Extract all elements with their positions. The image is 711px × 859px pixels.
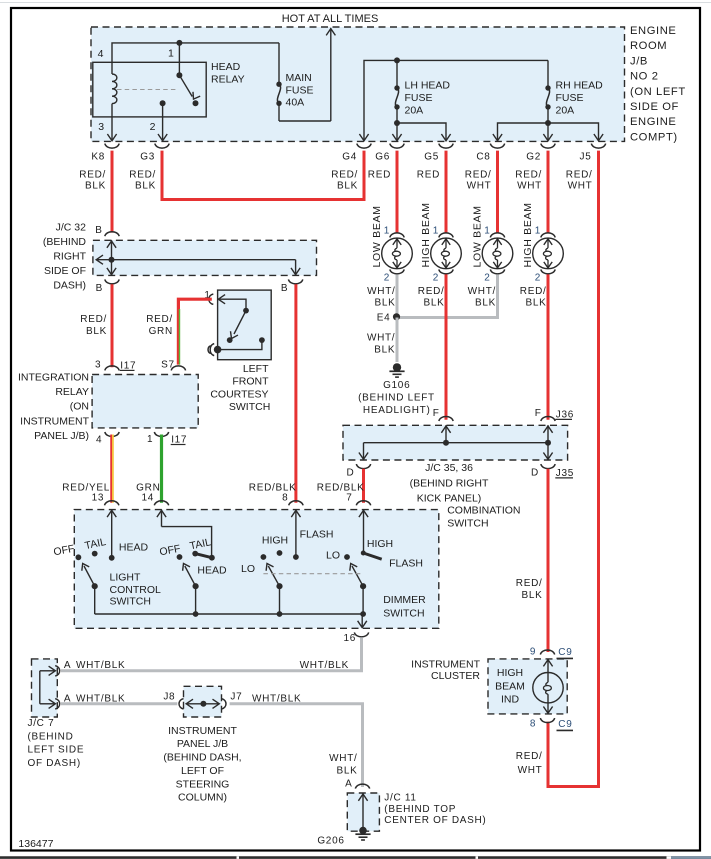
relay pin number labels: [98, 48, 174, 134]
label LH HEAD FUSE 20A: [405, 80, 451, 117]
svg-text:SWITCH: SWITCH: [110, 596, 151, 608]
J/C 32 internal bus: [96, 240, 300, 275]
label J/C 7 BEHIND LEFT SIDE OF DASH: [28, 718, 85, 769]
svg-text:SWITCH: SWITCH: [383, 607, 424, 619]
label K8 and wire color: [79, 152, 106, 192]
wire D RED/BLK down to combination switch pin 7: [362, 469, 365, 503]
svg-text:COLUMN): COLUMN): [178, 792, 227, 804]
svg-text:RED/: RED/: [80, 314, 107, 325]
connector A top of J/C 11: [355, 784, 369, 789]
svg-text:DASH): DASH): [53, 280, 86, 292]
combination switch pin 7 connector: [346, 493, 370, 506]
svg-text:WHT: WHT: [517, 180, 542, 191]
svg-text:HOT AT ALL TIMES: HOT AT ALL TIMES: [282, 13, 379, 25]
svg-text:E4: E4: [377, 313, 391, 324]
svg-text:RED/: RED/: [516, 751, 543, 762]
svg-text:RELAY: RELAY: [211, 73, 245, 85]
svg-text:SWITCH: SWITCH: [447, 518, 488, 530]
svg-text:1: 1: [384, 225, 390, 236]
svg-text:J5: J5: [580, 152, 592, 163]
svg-text:BLK: BLK: [423, 298, 444, 309]
svg-text:G2: G2: [526, 152, 541, 163]
labels LO HIGH FLASH dimmer pole 1: [241, 529, 333, 575]
high beam headlamp bulb at x=446: [431, 233, 462, 274]
wire high beam RH pin2 RED/BLK to J/C 35-36 J36: [547, 274, 550, 419]
svg-text:1: 1: [484, 225, 490, 236]
wire G5 RED to high beam LH: [445, 151, 448, 233]
relay pin 1 contact arm: [176, 43, 200, 106]
svg-text:FRONT: FRONT: [232, 376, 269, 388]
svg-text:16: 16: [343, 633, 356, 644]
svg-text:RED: RED: [417, 169, 440, 180]
J/C 11 box: [347, 793, 379, 831]
connector K8 on engine J/B: [105, 144, 119, 149]
high beam indicator bulb: [533, 659, 563, 713]
wire low beam RH pin2 WHT/BLK to E4: [397, 274, 498, 317]
svg-text:HEAD: HEAD: [119, 542, 149, 554]
svg-text:13: 13: [92, 493, 105, 504]
label LEFT FRONT COURTESY SWITCH: [210, 363, 270, 413]
light control switch pole 1: [76, 510, 117, 614]
relay coil: [112, 62, 117, 117]
svg-text:LH HEAD: LH HEAD: [405, 80, 451, 92]
svg-text:BLK: BLK: [475, 298, 496, 309]
wire B RED/BLK down to combination switch pin 8: [294, 284, 297, 503]
svg-text:OF DASH): OF DASH): [28, 758, 81, 769]
label LOW BEAM rotated and pins: [367, 205, 395, 308]
bottom window edge strip: [0, 856, 711, 859]
label G206: [317, 836, 344, 847]
label HIGH BEAM rotated and pins: [418, 202, 445, 308]
svg-text:RED/BLK: RED/BLK: [317, 483, 365, 494]
svg-text:FUSE: FUSE: [556, 92, 584, 104]
svg-text:BLK: BLK: [86, 326, 107, 337]
label HEAD RELAY: [211, 61, 245, 85]
svg-text:C9: C9: [558, 719, 572, 730]
svg-text:LEFT OF: LEFT OF: [181, 765, 224, 777]
svg-text:SIDE OF: SIDE OF: [44, 265, 86, 277]
svg-text:RED: RED: [368, 169, 391, 180]
svg-text:FUSE: FUSE: [405, 92, 433, 104]
svg-text:(BEHIND RIGHT: (BEHIND RIGHT: [410, 477, 489, 489]
svg-text:J/C 35, 36: J/C 35, 36: [425, 462, 473, 474]
svg-text:1: 1: [535, 225, 541, 236]
svg-text:WHT/BLK: WHT/BLK: [76, 660, 125, 671]
svg-text:COURTESY: COURTESY: [210, 388, 268, 400]
J/C 32 junction box: [93, 240, 317, 275]
svg-text:BLK: BLK: [135, 180, 156, 191]
svg-text:LO: LO: [326, 550, 340, 562]
svg-text:(ON LEFT: (ON LEFT: [630, 86, 686, 98]
connector G6 on engine J/B: [390, 144, 404, 149]
svg-text:136477: 136477: [18, 838, 53, 850]
connector G5 on engine J/B: [439, 144, 453, 149]
connector B bottom left of J/C 32: [96, 279, 120, 294]
svg-text:WHT/: WHT/: [329, 753, 357, 764]
svg-text:(BEHIND TOP: (BEHIND TOP: [384, 804, 456, 815]
wire RH fuse branch to C8 and J5: [493, 123, 603, 141]
svg-text:S7: S7: [161, 359, 175, 370]
low beam headlamp bulb at x=397: [382, 233, 413, 274]
svg-text:RED/: RED/: [129, 169, 156, 180]
svg-text:WHT: WHT: [568, 180, 593, 191]
label G6 and wire color: [368, 152, 391, 181]
svg-text:LIGHT: LIGHT: [110, 572, 142, 584]
wire E4 to ground G106 WHT/BLK: [367, 318, 397, 363]
engine room J/B No 2 box: [91, 27, 625, 141]
svg-text:2: 2: [384, 272, 390, 283]
J/C 7 internal link: [40, 666, 56, 708]
svg-text:HIGH BEAM: HIGH BEAM: [420, 202, 432, 267]
wire WHT/BLK J7 to J/C 11: [230, 694, 363, 788]
connector G4 on engine J/B: [357, 144, 371, 149]
svg-text:LO: LO: [241, 563, 255, 575]
connector B top of J/C 32: [95, 225, 119, 236]
svg-text:RED/BLK: RED/BLK: [249, 483, 297, 494]
label G5 and wire color: [417, 152, 440, 181]
svg-text:J8: J8: [163, 692, 175, 703]
connector B bottom right of J/C 32: [281, 279, 303, 294]
label C8 and wire color: [465, 152, 492, 192]
svg-text:NO 2: NO 2: [630, 71, 659, 83]
svg-text:BLK: BLK: [85, 180, 106, 191]
svg-text:INSTRUMENT: INSTRUMENT: [168, 725, 237, 737]
svg-text:LEFT: LEFT: [243, 363, 269, 375]
high beam headlamp bulb at x=548: [533, 233, 564, 274]
svg-text:KICK PANEL): KICK PANEL): [417, 493, 482, 505]
connector D right J35 on J/C 35-36: [531, 464, 574, 479]
svg-text:HIGH: HIGH: [262, 535, 288, 547]
combination switch pin 8 connector: [282, 493, 303, 506]
svg-text:40A: 40A: [286, 97, 305, 109]
svg-text:I17: I17: [120, 360, 136, 371]
svg-text:HEAD: HEAD: [211, 61, 241, 73]
wire D J35 RED/BLK down to instrument cluster pin 9: [516, 469, 548, 652]
wire GRN integration relay pin1 to combination switch 14: [136, 435, 161, 503]
label RH HEAD FUSE 20A: [556, 80, 604, 117]
wire LH fuse branch to G5: [397, 123, 451, 141]
svg-text:COMPT): COMPT): [630, 131, 678, 143]
combination switch box: [74, 510, 439, 629]
wire RED/GRN courtesy pin1 to integration relay S7: [146, 299, 212, 364]
svg-text:G5: G5: [424, 152, 439, 163]
courtesy switch internal contacts: [218, 295, 264, 350]
svg-text:(BEHIND DASH,: (BEHIND DASH,: [163, 752, 241, 764]
connector 9 C9 top of cluster: [530, 646, 573, 658]
head relay box: [93, 62, 206, 117]
svg-text:J7: J7: [230, 692, 242, 703]
label RED/BLK wire colors above combination switch: [249, 483, 365, 494]
svg-text:C8: C8: [476, 152, 490, 163]
svg-text:RED/: RED/: [418, 286, 445, 297]
wire G2 RED/WHT to high beam RH: [547, 151, 550, 233]
svg-text:CLUSTER: CLUSTER: [431, 670, 480, 682]
integration relay pin S7 connector: [161, 359, 185, 370]
svg-text:RH HEAD: RH HEAD: [556, 80, 604, 92]
label INSTRUMENT PANEL J/B BEHIND DASH LEFT OF STEERING COLUMN: [163, 725, 241, 804]
svg-text:FLASH: FLASH: [300, 529, 334, 541]
instrument cluster box: [488, 659, 567, 714]
svg-text:A: A: [345, 778, 352, 789]
svg-text:4: 4: [96, 435, 102, 446]
svg-text:RED/: RED/: [331, 169, 358, 180]
svg-text:G106: G106: [383, 380, 410, 391]
svg-text:4: 4: [98, 48, 104, 60]
svg-text:2: 2: [535, 272, 541, 283]
wire G4 riser and fuse feed bus: [359, 57, 548, 140]
relay mechanical link dashed: [117, 89, 176, 91]
relay pin 3 lead: [107, 117, 116, 141]
svg-text:RED/: RED/: [515, 169, 542, 180]
svg-text:LOW BEAM: LOW BEAM: [371, 205, 383, 267]
wire high beam LH pin2 RED/BLK to J/C 35-36: [445, 274, 448, 419]
label LIGHT CONTROL SWITCH: [110, 572, 161, 608]
label HIGH BEAM rotated and pins: [520, 202, 547, 308]
svg-text:F: F: [433, 408, 440, 419]
svg-text:BLK: BLK: [337, 180, 358, 191]
connector J5 on engine J/B: [591, 144, 605, 149]
svg-text:8: 8: [530, 719, 536, 730]
left front courtesy switch box: [218, 290, 272, 360]
courtesy switch door ground: [208, 344, 221, 356]
combination switch pin 14 connector: [141, 493, 168, 506]
svg-text:ENGINE: ENGINE: [630, 116, 677, 128]
svg-text:14: 14: [141, 493, 154, 504]
ground G106: [389, 363, 404, 377]
svg-text:20A: 20A: [556, 104, 575, 116]
svg-text:F: F: [535, 408, 542, 419]
svg-text:A: A: [64, 660, 71, 671]
svg-text:(BEHIND: (BEHIND: [43, 236, 87, 248]
connector D left on J/C 35-36: [346, 464, 370, 478]
connector 8 C9 bottom of cluster: [530, 718, 573, 730]
label G3 and wire color: [129, 152, 156, 192]
dimmer mechanical link dashed: [263, 573, 363, 575]
label INTEGRATION RELAY ON INSTRUMENT PANEL J/B: [18, 371, 90, 442]
connector G3 on engine J/B: [155, 144, 169, 149]
connector G2 on engine J/B: [541, 144, 555, 149]
svg-text:WHT/: WHT/: [468, 286, 496, 297]
svg-text:C9: C9: [558, 647, 572, 658]
J/C 11 internal lead to ground: [358, 794, 367, 835]
svg-text:RED/: RED/: [516, 578, 543, 589]
J/C 7 box: [32, 659, 58, 717]
connector F left on J/C 35-36: [433, 408, 454, 421]
svg-text:2: 2: [484, 272, 490, 283]
relay pin 2 contact and lead: [158, 100, 167, 141]
LH head fuse 20A: [392, 60, 401, 140]
integration relay pin 4 connector: [96, 432, 119, 446]
svg-text:BLK: BLK: [336, 765, 357, 776]
low beam headlamp bulb at x=497.5: [482, 233, 513, 274]
svg-text:WHT/BLK: WHT/BLK: [76, 694, 125, 705]
label WHT/BLK top A wire: [76, 660, 125, 671]
svg-text:INSTRUMENT: INSTRUMENT: [20, 415, 89, 427]
connector A bottom of J/C 7: [55, 694, 71, 710]
svg-text:WHT/: WHT/: [367, 333, 395, 344]
J/C 35-36 internal bus: [359, 425, 553, 460]
light control switch pole 2: [157, 510, 215, 614]
connector A top of J/C 7: [55, 660, 71, 676]
label J/C 11 BEHIND TOP CENTER OF DASH: [384, 793, 486, 827]
svg-text:G6: G6: [375, 152, 390, 163]
diagram number 136477: [18, 838, 53, 850]
svg-text:HEADLIGHT): HEADLIGHT): [363, 405, 431, 416]
wire K8 RED/BLK down to J/C 32: [111, 151, 114, 233]
svg-text:BLK: BLK: [521, 590, 542, 601]
svg-text:WHT/BLK: WHT/BLK: [300, 660, 349, 671]
svg-text:K8: K8: [91, 152, 105, 163]
labels LO HIGH FLASH dimmer pole 2: [326, 538, 423, 569]
svg-text:ENGINE: ENGINE: [630, 25, 677, 37]
svg-text:BEAM: BEAM: [495, 681, 525, 693]
label COMBINATION SWITCH: [447, 505, 520, 530]
svg-text:COMBINATION: COMBINATION: [447, 505, 520, 517]
main fuse 40A: [276, 43, 281, 121]
integration relay pin 3 connector: [95, 359, 136, 371]
svg-text:BLK: BLK: [525, 298, 546, 309]
integration relay pin 1 connector: [147, 432, 187, 446]
svg-text:RIGHT: RIGHT: [53, 251, 86, 263]
svg-text:WHT: WHT: [518, 765, 543, 776]
svg-text:WHT/: WHT/: [367, 286, 395, 297]
svg-text:1: 1: [147, 434, 153, 445]
wire B RED/BLK down to integration relay pin 3: [80, 284, 112, 367]
svg-text:1: 1: [168, 48, 174, 60]
svg-text:(BEHIND LEFT: (BEHIND LEFT: [358, 393, 435, 404]
J/C 35-36 junction box: [343, 425, 568, 460]
svg-text:B: B: [281, 283, 288, 294]
svg-text:MAIN: MAIN: [286, 72, 312, 84]
svg-text:RED/: RED/: [465, 169, 492, 180]
svg-text:9: 9: [530, 646, 536, 657]
svg-text:BLK: BLK: [374, 298, 395, 309]
connector J8 on instrument panel J/B: [163, 692, 183, 710]
svg-text:J/C 32: J/C 32: [56, 221, 87, 233]
svg-text:B: B: [96, 283, 103, 294]
label J/C 32 BEHIND RIGHT SIDE OF DASH: [43, 221, 87, 291]
label HIGH BEAM IND: [495, 667, 525, 706]
svg-text:SWITCH: SWITCH: [229, 401, 270, 413]
svg-text:PANEL J/B): PANEL J/B): [34, 430, 89, 442]
svg-text:FUSE: FUSE: [286, 84, 314, 96]
wire J5 RED/WHT right side run to instrument cluster pin 8: [548, 151, 599, 787]
label INSTRUMENT CLUSTER: [411, 659, 480, 683]
svg-text:2: 2: [150, 121, 156, 133]
svg-text:G206: G206: [317, 836, 344, 847]
svg-text:J36: J36: [556, 409, 574, 420]
svg-text:PANEL J/B: PANEL J/B: [177, 738, 228, 750]
svg-text:WHT/BLK: WHT/BLK: [252, 694, 301, 705]
ground G206: [355, 834, 370, 840]
svg-text:SIDE OF: SIDE OF: [630, 101, 679, 113]
svg-text:D: D: [531, 467, 539, 478]
label DIMMER SWITCH: [383, 594, 426, 619]
svg-text:RED/: RED/: [566, 169, 593, 180]
RH head fuse 20A: [543, 60, 552, 140]
svg-text:7: 7: [346, 493, 352, 504]
combination switch pin 13 connector: [92, 493, 119, 506]
svg-text:RED/: RED/: [79, 169, 106, 180]
svg-text:(ON: (ON: [70, 401, 89, 413]
svg-text:STEERING: STEERING: [176, 778, 230, 790]
svg-text:RED/: RED/: [146, 314, 173, 325]
label G2 and wire color: [515, 152, 542, 192]
svg-text:(BEHIND: (BEHIND: [28, 731, 74, 742]
wire hot feed riser with up arrow: [279, 28, 335, 121]
svg-text:ROOM: ROOM: [630, 40, 667, 52]
dimmer switch pole 2: [344, 510, 382, 614]
label J5 and wire color: [566, 152, 593, 192]
svg-text:WHT: WHT: [467, 180, 492, 191]
svg-text:J/C 7: J/C 7: [28, 718, 55, 729]
integration relay box: [92, 375, 198, 428]
svg-text:D: D: [346, 467, 354, 478]
node E4: [377, 313, 400, 324]
labels OFF TAIL HEAD pole 1: [53, 536, 149, 558]
label J/C 35 36 BEHIND RIGHT KICK PANEL: [410, 462, 489, 505]
svg-text:J/B: J/B: [630, 55, 648, 67]
svg-text:BLK: BLK: [374, 344, 395, 355]
dimmer switch pole 1: [261, 510, 301, 614]
connector F right J36 on J/C 35-36: [535, 408, 574, 421]
label MAIN FUSE 40A: [286, 72, 314, 109]
svg-text:HEAD: HEAD: [197, 565, 227, 577]
wire WHT/BLK pin16 down to J/C 7 A: [61, 637, 362, 671]
svg-text:8: 8: [282, 493, 288, 504]
combination switch common bus to pin 16: [95, 611, 367, 628]
connector 16 bottom of combination switch: [343, 632, 368, 644]
svg-text:GRN: GRN: [149, 326, 173, 337]
svg-text:B: B: [95, 225, 102, 236]
wire C8 RED/WHT to low beam RH: [496, 151, 499, 233]
page top hairline: [0, 2, 711, 4]
label G4 and wire color: [331, 152, 358, 192]
svg-text:1: 1: [433, 225, 439, 236]
svg-text:3: 3: [98, 121, 104, 133]
svg-text:INSTRUMENT: INSTRUMENT: [411, 659, 480, 671]
label HOT AT ALL TIMES: [282, 13, 379, 25]
label LOW BEAM rotated and pins: [468, 205, 496, 308]
label ENGINE ROOM J/B NO 2: [630, 25, 686, 143]
svg-text:G4: G4: [342, 152, 357, 163]
labels OFF TAIL HEAD pole 2: [159, 536, 227, 576]
svg-text:DIMMER: DIMMER: [383, 594, 426, 606]
label RED/WHT loop wire: [516, 751, 543, 776]
instrument panel J/B internal link: [186, 699, 220, 708]
svg-text:HIGH BEAM: HIGH BEAM: [522, 202, 534, 267]
svg-text:HIGH: HIGH: [497, 667, 523, 679]
wire G6 RED to low beam LH: [396, 151, 399, 233]
label G106 BEHIND LEFT HEADLIGHT: [358, 380, 435, 416]
courtesy switch pin 1 connector: [204, 290, 213, 305]
svg-text:RED/: RED/: [520, 286, 547, 297]
svg-text:20A: 20A: [405, 104, 424, 116]
svg-text:CONTROL: CONTROL: [110, 584, 161, 596]
wire WHT/BLK J/C7 A to J8: [61, 694, 177, 705]
svg-text:J/C 11: J/C 11: [384, 793, 416, 804]
svg-text:FLASH: FLASH: [389, 558, 423, 570]
svg-text:LEFT SIDE: LEFT SIDE: [28, 745, 85, 756]
svg-text:HIGH: HIGH: [367, 538, 393, 550]
svg-text:RELAY: RELAY: [55, 386, 89, 398]
svg-text:G3: G3: [140, 152, 155, 163]
wire relay pin4 to pin1 to main fuse top bus: [112, 40, 279, 62]
wire low beam LH pin2 WHT/BLK to E4: [396, 274, 399, 316]
label WHT/BLK right of pin 16 wire: [300, 660, 349, 671]
connector J7 on instrument panel J/B: [222, 692, 243, 710]
svg-text:3: 3: [95, 359, 101, 370]
